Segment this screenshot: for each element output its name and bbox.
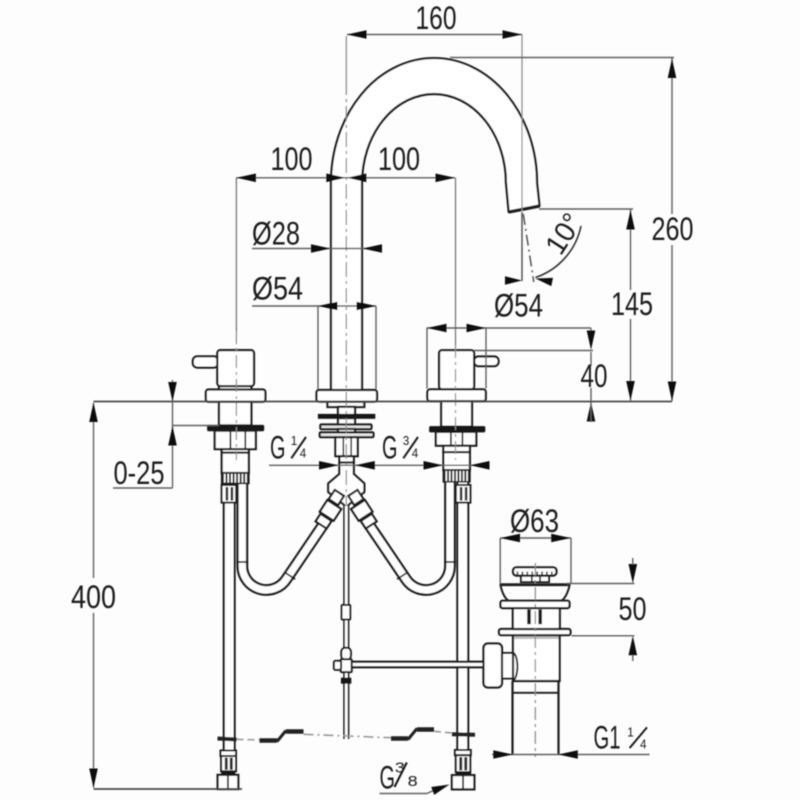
washer top extension line	[173, 425, 220, 427]
handle lever left	[193, 356, 219, 367]
supply pipe left (bore)	[225, 482, 234, 751]
valve transition left	[222, 449, 249, 453]
drain ball boss	[513, 653, 518, 680]
svg-text:G: G	[380, 760, 396, 796]
dimension 160 line	[347, 34, 522, 36]
dimension dia54L extension left	[317, 306, 319, 389]
dimension 100 bowtie right-pointing	[326, 174, 346, 183]
outlet centerline	[521, 35, 523, 212]
hose coupling collar right	[361, 514, 377, 529]
valve thread hatch right	[443, 470, 470, 482]
thread leader arrow at center pipe left	[319, 461, 339, 470]
break line right pipe crossing	[452, 732, 475, 737]
valve neck right	[441, 401, 472, 427]
dimension 160 arrow right	[503, 30, 523, 39]
valve nut right facet B	[461, 433, 463, 446]
drain cage	[513, 608, 560, 629]
fitting band left	[222, 771, 235, 775]
svg-text:G: G	[270, 430, 286, 466]
svg-text:4: 4	[300, 447, 307, 461]
hose right diagonal seam	[397, 573, 407, 579]
dimension G1-1/4 arrow left	[493, 750, 513, 759]
supply pipe right knurl slot A	[460, 487, 463, 501]
dimension dia63 arrow left	[501, 534, 521, 543]
central mounting nut	[335, 437, 357, 456]
spout base escutcheon	[317, 390, 378, 402]
dimension 100 arrow far-left	[236, 174, 256, 183]
linkage arm (outer)	[349, 661, 485, 669]
central step flange	[328, 402, 365, 407]
drain funnel right side	[561, 586, 569, 601]
spout outlet cut face	[509, 206, 540, 212]
rod clamp body	[341, 659, 352, 672]
dimension dia54L arrow left	[318, 302, 338, 311]
svg-text:G1: G1	[594, 719, 621, 755]
break line bar C	[286, 729, 304, 733]
dimension 145 line	[630, 210, 632, 291]
dimension dia54L extension right	[375, 306, 377, 389]
svg-text:100: 100	[271, 141, 313, 177]
dimension 160 arrow left	[347, 30, 367, 39]
handle body left	[217, 350, 254, 386]
break line dash G	[434, 731, 452, 733]
supply pipe left knurl slot A	[226, 487, 229, 501]
dimension 260 arrow bottom	[668, 382, 677, 402]
drain top flange	[501, 601, 570, 608]
outlet extension line	[539, 208, 633, 210]
spout top extension line	[450, 57, 674, 59]
fitting knurl right slot A	[459, 757, 462, 770]
svg-text:260: 260	[652, 211, 694, 247]
fitting hex left facet	[227, 776, 229, 789]
supply pipe left top knurl	[222, 485, 237, 503]
svg-text:100: 100	[378, 141, 420, 177]
hose right bend seam	[444, 561, 456, 563]
drain tail pipe wall left	[511, 681, 513, 755]
valve neck left	[219, 402, 251, 426]
drain ball housing neck	[502, 653, 513, 679]
drain funnel rim	[500, 583, 571, 586]
drain lower flange	[499, 629, 571, 635]
drain plug stem	[521, 576, 549, 582]
plug seat extension line	[567, 583, 635, 585]
dimension 145 arrow bottom	[626, 381, 635, 401]
thread leader arrow at center pipe right	[355, 461, 375, 470]
supply pipe right top knurl	[456, 485, 471, 503]
dimension 400 line	[93, 403, 95, 578]
central washer 2	[320, 425, 371, 430]
central Y body	[328, 463, 364, 508]
valve nut right facet A	[450, 433, 452, 446]
fitting collar left	[221, 751, 237, 757]
supply pipe left (outer)	[223, 482, 236, 751]
svg-text:4: 4	[412, 447, 419, 461]
dimension dia28 arrow right	[363, 244, 383, 253]
svg-text:145: 145	[611, 286, 653, 322]
svg-text:Ø28: Ø28	[252, 216, 300, 252]
svg-text:Ø54: Ø54	[252, 271, 303, 307]
dimension 0-25 arrow down	[168, 382, 177, 402]
pop-up rod (outer)	[343, 506, 349, 739]
dimension 40 line segments	[590, 352, 592, 366]
right valve centerline	[455, 178, 457, 345]
thread leader line	[269, 464, 489, 466]
drain tail pipe wall right	[557, 681, 559, 755]
valve nut left	[215, 431, 256, 449]
valve transition right	[443, 446, 470, 452]
svg-text:3: 3	[403, 434, 410, 448]
central washer 3	[320, 432, 374, 437]
drain barrel thread band	[514, 636, 558, 639]
outlet axis dash-dot	[523, 214, 534, 282]
drain plug cap knurl	[517, 572, 519, 576]
hose left diagonal seam	[285, 573, 295, 579]
handle escutcheon left	[206, 390, 266, 402]
central tailpiece G-thread	[339, 456, 353, 463]
svg-text:1: 1	[627, 725, 634, 739]
fitting knurl right slot B	[464, 757, 467, 770]
rod sleeve	[342, 605, 351, 620]
valve washer left	[208, 425, 264, 430]
pop-up rod (core)	[345, 506, 348, 739]
svg-text:50: 50	[619, 591, 647, 627]
angle arc	[536, 226, 582, 278]
drain plug stem tick B	[539, 576, 541, 581]
supply pipe right (bore)	[458, 482, 467, 751]
central washer black	[318, 414, 374, 418]
supply pipe left knurl slot B	[231, 487, 234, 501]
dimension 260 line	[671, 58, 673, 214]
hose coupling nut left	[320, 500, 341, 521]
dimension G1-1/4 arrow right	[558, 750, 578, 759]
dimension dia54L line	[252, 305, 376, 307]
thread leader arrow at right pipe right	[470, 461, 490, 470]
central nut facet left	[342, 438, 344, 456]
handle base step left	[219, 386, 251, 390]
dimension dia63 arrow right	[551, 534, 571, 543]
dimension 40 lower tail	[590, 402, 592, 422]
svg-text:Ø63: Ø63	[510, 503, 559, 539]
valve washer right	[430, 427, 485, 432]
dimension dia54R arrow right	[467, 324, 487, 333]
dimension 40 arrow down	[587, 331, 596, 351]
dimension dia54L arrow right	[357, 302, 377, 311]
dimension dia63 line	[500, 537, 571, 539]
break line bar E	[391, 736, 408, 740]
dimension 40 upper tail	[590, 328, 592, 331]
break line jog 2	[408, 729, 417, 740]
dimension 145 arrow top	[626, 210, 635, 230]
svg-text:400: 400	[71, 579, 116, 615]
break line dash D	[304, 734, 392, 737]
supply pipe right (outer)	[456, 482, 469, 751]
valve nut left facet B	[244, 431, 246, 448]
fitting band right	[456, 772, 470, 775]
svg-text:40: 40	[581, 358, 608, 394]
fitting hex nut left	[218, 775, 239, 789]
supply pipe right knurl slot B	[465, 487, 468, 501]
fitting knurl left slot A	[225, 758, 228, 770]
drain plug stem tick A	[531, 576, 533, 581]
thread leader arrow at right pipe left	[424, 461, 444, 470]
G3/8 leader line	[380, 793, 428, 795]
drain barrel seam	[513, 692, 559, 694]
flexible hose left (bore)	[242, 474, 334, 590]
svg-text:Ø54: Ø54	[494, 288, 543, 324]
dimension dia63 extension left	[499, 538, 501, 584]
G3/8 leader arrow	[431, 785, 449, 795]
bottom reference line	[94, 788, 243, 790]
flexible hose left (outer)	[242, 474, 334, 590]
handle body right	[439, 350, 474, 389]
dimension dia54R extension right	[485, 328, 487, 389]
dimension 0-25 vertical	[172, 380, 174, 488]
dimension 100 bowtie left-pointing	[347, 174, 367, 183]
dimension dia63 extension right	[570, 538, 572, 584]
deck reference line	[94, 401, 673, 403]
spout gooseneck outline	[331, 58, 540, 392]
drain centerline	[534, 563, 536, 757]
angle arrow on vertical	[505, 276, 522, 284]
dimension 0-25 underline	[113, 487, 173, 489]
svg-text:G: G	[382, 430, 398, 466]
angle arrow on axis	[536, 278, 554, 286]
dimension G1-1/4 line	[492, 754, 650, 756]
central neck low	[338, 429, 355, 433]
svg-text:160: 160	[416, 0, 457, 36]
fitting collar right	[455, 750, 471, 755]
dimension 50 arrow top	[629, 564, 638, 584]
outlet vertical reference	[521, 212, 523, 281]
valve thread pipe left	[222, 453, 249, 473]
handle escutcheon right	[427, 389, 485, 401]
drain barrel	[513, 635, 560, 681]
drain plug cap	[513, 567, 557, 575]
drain cage slot A	[527, 610, 531, 625]
svg-text:4: 4	[640, 737, 647, 751]
flexible hose right (outer)	[358, 474, 450, 590]
svg-text:0-25: 0-25	[114, 455, 165, 491]
break line jog 1	[277, 731, 286, 742]
fitting knurl right	[456, 755, 471, 772]
svg-text:1: 1	[291, 434, 298, 448]
fitting hex nut right	[452, 775, 475, 789]
drain ball nut	[484, 644, 503, 688]
svg-text:8: 8	[408, 773, 418, 790]
central neck upper	[338, 407, 355, 415]
fitting hex right facet	[462, 776, 464, 789]
dimension dia54R arrow left	[427, 324, 447, 333]
hose coupling nut right	[351, 500, 372, 521]
break line bar F	[417, 727, 434, 731]
dimension 50 arrow bottom	[629, 636, 638, 656]
valve nut right	[436, 432, 476, 446]
dimension 40 arrow up	[587, 402, 596, 422]
Y branch stub right	[348, 490, 363, 505]
break line bar B	[260, 738, 278, 742]
dimension 0-25 arrow up	[168, 426, 177, 446]
dimension 400 arrow top	[89, 403, 98, 423]
hose left bend seam	[236, 561, 248, 563]
handle top extension line	[474, 350, 593, 352]
dimension 400 arrow bottom	[89, 769, 98, 789]
linkage arm (bore)	[349, 663, 485, 666]
fitting knurl left	[221, 756, 236, 771]
central neck mid	[338, 418, 355, 424]
hose coupling collar left	[316, 514, 332, 529]
valve thread hatch left	[222, 473, 249, 483]
dimension 100 arrow far-right	[436, 174, 456, 183]
drain cage slot B	[538, 610, 542, 625]
valve nut left facet A	[229, 431, 231, 448]
dimension dia28 arrow left	[311, 244, 331, 253]
tap centerline	[345, 36, 347, 80]
flange extension line	[572, 635, 635, 637]
dimension dia28 line	[252, 248, 382, 250]
handle lever right	[474, 357, 499, 367]
central nut facet right	[350, 438, 352, 456]
fitting knurl left slot B	[230, 758, 233, 770]
break line left pipe crossing	[218, 739, 237, 740]
left valve centerline	[235, 178, 237, 331]
rod lower joint	[341, 678, 350, 683]
dimension 260 arrow top	[668, 59, 677, 79]
valve thread pipe right	[443, 452, 470, 470]
Y branch stub left	[329, 490, 344, 505]
dimension 100 line	[236, 177, 455, 179]
flexible hose right (bore)	[358, 474, 450, 590]
rod clamp ball	[341, 648, 351, 660]
break line dash A	[237, 738, 260, 741]
drain funnel left side	[501, 586, 509, 601]
dimension dia54R extension left	[426, 328, 428, 389]
rod clamp tab	[334, 661, 341, 670]
dimension dia54R line	[427, 327, 591, 329]
